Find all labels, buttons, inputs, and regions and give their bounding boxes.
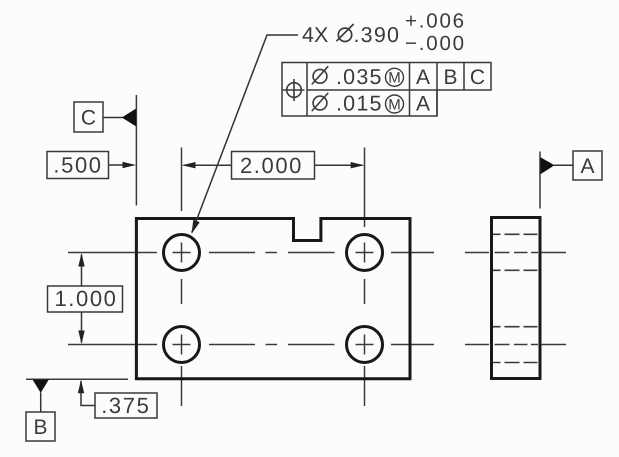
svg-text:M: M: [388, 70, 401, 87]
svg-text:A: A: [416, 66, 430, 89]
svg-text:A: A: [416, 93, 430, 116]
svg-text:A: A: [580, 155, 594, 178]
svg-text:.015: .015: [336, 91, 383, 115]
svg-text:2.000: 2.000: [240, 153, 303, 178]
svg-text:+.006: +.006: [405, 9, 466, 32]
svg-text:.390: .390: [354, 23, 401, 47]
svg-text:M: M: [388, 96, 401, 113]
svg-text:.500: .500: [53, 152, 102, 177]
svg-text:1.000: 1.000: [54, 286, 117, 311]
svg-text:.375: .375: [101, 393, 150, 418]
svg-text:−.000: −.000: [405, 32, 466, 55]
svg-text:4X: 4X: [302, 23, 328, 47]
svg-text:C: C: [81, 107, 96, 130]
svg-text:B: B: [443, 66, 457, 89]
svg-text:.035: .035: [336, 65, 383, 89]
svg-text:C: C: [470, 66, 485, 89]
svg-text:B: B: [33, 416, 47, 439]
